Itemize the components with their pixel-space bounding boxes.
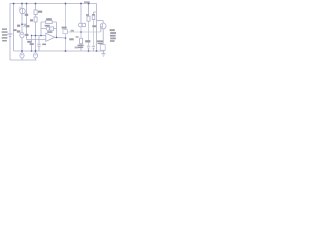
label small x14 [17, 25, 20, 27]
wire op-amp noninverting input y=39.5 [27, 39, 47, 41]
transistor TR1 circle [100, 23, 106, 29]
resistor R7 box [80, 38, 83, 43]
label battery text line3 [2, 34, 7, 36]
label R6 [62, 27, 67, 29]
label C4 [85, 40, 90, 42]
junction node x35.5 y51 [35, 50, 37, 52]
wire vertical x=26.5 [26, 4, 28, 40]
capacitor C5 box [92, 15, 95, 19]
wire x=93.5 branch [94, 12, 97, 51]
wire vertical x=31.5 [31, 36, 33, 52]
label LDR1 [25, 14, 28, 16]
label R4 [46, 18, 52, 20]
wire op-amp output [55, 36, 66, 39]
text labels (smudges) [2, 1, 116, 48]
pot wiper arrow [24, 23, 27, 27]
junction node x26.5 y3.5 [26, 3, 28, 5]
label relay line1 [110, 29, 115, 31]
wire collector jog to TR1 [97, 20, 104, 22]
label faint mid [42, 44, 46, 46]
junction node x88.5 y51 [88, 50, 90, 52]
battery B1 plates [8, 34, 13, 37]
wire second feedback path y=28.5 [41, 28, 57, 30]
label relay line5 [110, 40, 115, 42]
junction node x22 y3.5 [21, 3, 23, 5]
junction node x81 y3.5 [80, 3, 82, 5]
label R7 value line2 [78, 47, 83, 49]
LDR1 element [22, 9, 24, 14]
capacitor C7 ellipse [33, 53, 37, 58]
label R3 left [30, 19, 33, 21]
wire x=93.5 mid (faint) [93, 20, 95, 46]
wire vertical x=35.5 segments [35, 4, 37, 61]
junction node x13.6 y3.5 [13, 3, 15, 5]
junction node x56.5 y37.4 [56, 37, 58, 39]
wire left battery branch [9, 4, 11, 61]
junction node x81 y32 [80, 31, 82, 33]
capacitor C2 tick [21, 54, 23, 56]
label C1 right [25, 34, 28, 36]
op-amp IC1 triangle [46, 33, 55, 41]
label R7 value line1 [78, 45, 84, 47]
label VR2 [45, 25, 50, 27]
label battery text line4 [2, 37, 8, 39]
wire coil to rail [102, 49, 104, 52]
wire vertical x=22 segments [21, 4, 23, 61]
label small mid3 [75, 47, 78, 49]
junction node x22 y24.2 [21, 23, 23, 25]
pot wiper wire [22, 23, 27, 25]
label IC1 [47, 31, 52, 33]
wire vertical x=65.5 [65, 4, 67, 52]
junction node x41 y35.5 [40, 35, 42, 37]
relay RLA coil box [100, 45, 105, 51]
label battery text line1 [2, 28, 7, 30]
label pin [69, 38, 73, 40]
wire base from output [101, 27, 103, 32]
label VR1 value [92, 25, 96, 27]
resistor R2 box [34, 10, 37, 15]
junction node x31.5 y51 [31, 50, 33, 52]
junction node x35.5 y35.5 [35, 35, 37, 37]
transistor TR1 base bar [101, 24, 103, 28]
wire vertical x=39 capacitor branch [38, 36, 40, 52]
resistor R3 box [34, 17, 37, 22]
wire vertical x=96.5 [96, 4, 98, 52]
junction node x65.5 y51 [65, 50, 67, 52]
label relay line2 [110, 32, 116, 34]
label VR arrow [26, 25, 30, 27]
LDR1 circle [20, 8, 26, 14]
capacitor C1 tick [21, 33, 23, 35]
label battery text line2 [2, 31, 8, 33]
wire vertical x=81 [80, 4, 82, 52]
label rail note [84, 1, 90, 3]
LDR1 arrows [19, 7, 21, 10]
capacitor C6 plates [92, 46, 95, 48]
label R5 [27, 41, 31, 43]
junction node x88.5 y3.5 [88, 3, 90, 5]
wire vertical x=88.5 mid (faint) [88, 21, 90, 46]
label RLA line1 [97, 40, 103, 42]
label small mid1 [71, 30, 74, 32]
junction node x22 y51 [21, 50, 23, 52]
label relay line4 [110, 38, 116, 40]
wire output to base (faint) [67, 31, 101, 33]
preset VR2 box [50, 27, 54, 30]
resistor R8 box [87, 16, 90, 21]
label small x13 [13, 29, 16, 31]
ground symbol [101, 51, 105, 56]
label RLA line2 [98, 43, 103, 45]
wire mid 0V rail [14, 50, 105, 52]
wire feedback top y=22 [41, 22, 57, 37]
label C5 top [92, 14, 95, 15]
resistor R4 feedback box [46, 21, 52, 24]
capacitor C7 tick [34, 54, 36, 56]
label battery text line5 [2, 40, 7, 42]
capacitor C1 ellipse [20, 32, 24, 38]
junction node x31.5 y35.5 [31, 35, 32, 36]
label 0V [30, 43, 34, 45]
label C1 left [17, 30, 20, 32]
junction node x35.5 y3.5 [35, 3, 37, 5]
wire vertical x=81 mid (faint) [80, 27, 82, 39]
capacitor C4 plates [87, 46, 90, 48]
junction node x96.5 y51 [96, 50, 98, 52]
label relay line3 [110, 35, 116, 37]
preset VR1 box [82, 23, 85, 26]
capacitor C2 ellipse [20, 53, 24, 58]
wire top +V rail [10, 3, 97, 5]
wire op-amp inverting input y=35.5 [32, 35, 47, 37]
wire vertical x=88.5 [88, 4, 90, 52]
junction node x65.5 y3.5 [65, 3, 67, 5]
wire vertical x=13.6 [13, 4, 15, 52]
preset VR1 circle [78, 23, 82, 27]
wire bottom-left 0V rail [10, 59, 37, 61]
preset VR2 circle [46, 27, 49, 30]
label small mid2 [76, 36, 79, 38]
resistor R6 on output wire [63, 30, 68, 34]
label R2 [38, 11, 42, 13]
label R8 top [86, 14, 89, 16]
capacitor C3 plates [37, 44, 40, 46]
junction node x65.5 y38 [65, 37, 67, 39]
wire emitter down [102, 29, 104, 45]
transistor TR1 body [102, 21, 104, 30]
